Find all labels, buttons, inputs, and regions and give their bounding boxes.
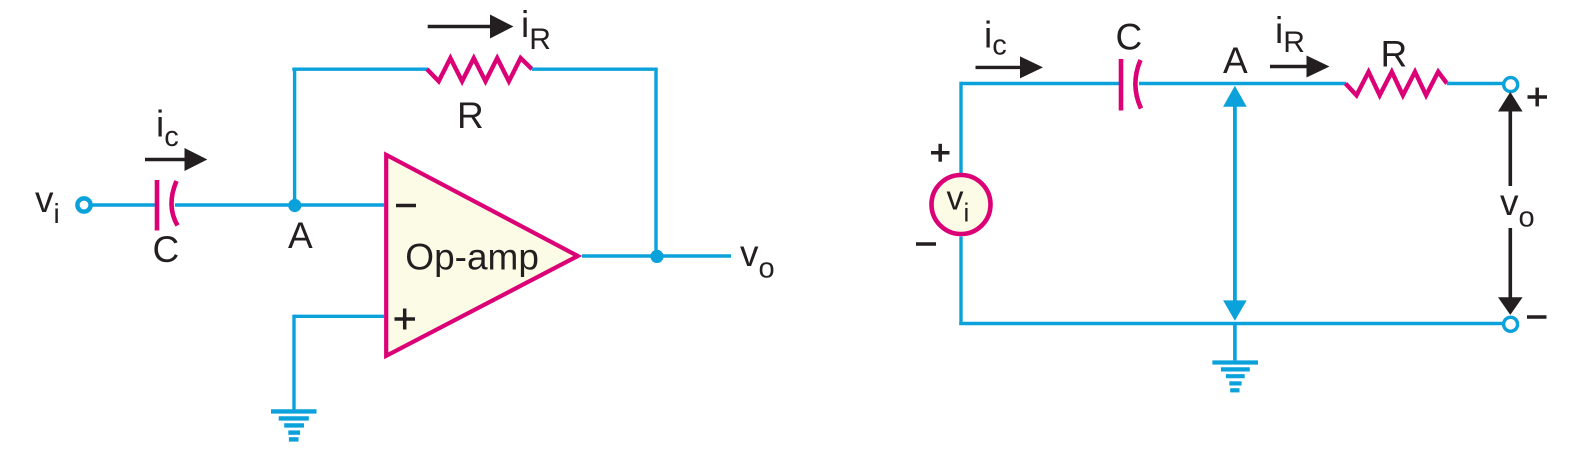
- wire: bottom: [959, 322, 1503, 325]
- source polarity plus: [931, 144, 950, 162]
- svg-text:ic: ic: [156, 104, 179, 154]
- wire: top feedback, left segment: [292, 67, 428, 70]
- svg-text:vo: vo: [1500, 182, 1535, 234]
- svg-text:R: R: [1381, 34, 1408, 75]
- input terminal (open circle): [77, 198, 90, 211]
- svg-text:Op-amp: Op-amp: [405, 237, 539, 278]
- capacitor C (right curved plate): [171, 181, 177, 226]
- wire: top, capacitor to resistor: [1139, 82, 1346, 85]
- wire: input terminal to capacitor: [92, 203, 155, 206]
- ground (right circuit): [1212, 363, 1258, 391]
- op-amp non-inverting input marker (plus): [395, 309, 416, 330]
- wire: feedback down to output node: [654, 69, 657, 256]
- capacitor C (left plate): [155, 180, 160, 231]
- resistor R (feedback zigzag): [427, 58, 532, 81]
- wire: left vertical below source: [959, 237, 962, 326]
- wire: capacitor to op-amp inverting input (through node A): [175, 203, 384, 206]
- current arrow i_c: [976, 56, 1044, 78]
- wire: resistor to output terminal: [1447, 82, 1503, 85]
- current arrow i_R: [428, 15, 514, 39]
- svg-text:R: R: [457, 95, 484, 136]
- current arrow i_R: [1270, 56, 1330, 78]
- op-amp inverting input marker (minus): [396, 204, 416, 208]
- svg-text:A: A: [1223, 40, 1248, 81]
- wire: top feedback, right segment: [532, 67, 658, 70]
- resistor R (zigzag): [1346, 72, 1448, 96]
- ground (left circuit): [271, 411, 317, 439]
- wire: top left segment (source to capacitor): [961, 82, 1122, 85]
- svg-text:iR: iR: [521, 4, 551, 56]
- svg-text:C: C: [1116, 17, 1143, 58]
- output polarity minus: [1527, 315, 1547, 319]
- capacitor C (right curved plate): [1135, 60, 1141, 109]
- svg-text:ic: ic: [984, 15, 1007, 62]
- label v_i (input voltage): [35, 179, 60, 229]
- node A (junction dot): [288, 199, 301, 212]
- wire: left vertical above source: [959, 82, 962, 174]
- source polarity minus: [916, 242, 936, 246]
- output polarity plus: [1528, 88, 1548, 107]
- voltage source v_i: [932, 175, 991, 234]
- svg-text:A: A: [288, 215, 313, 256]
- v_o measurement arrows: [1498, 92, 1523, 315]
- wire: node A up to feedback path: [293, 68, 296, 206]
- node A branch: double-arrow to ground: [1223, 86, 1247, 321]
- current arrow i_c: [145, 148, 207, 171]
- wire: ground stub below bottom wire: [1233, 324, 1237, 361]
- wire: non-inverting input horizontal: [294, 315, 384, 318]
- svg-text:iR: iR: [1275, 10, 1305, 59]
- wire: non-inverting input down to ground: [292, 315, 295, 411]
- op-amp U1 (triangle): [386, 155, 578, 356]
- svg-text:vo: vo: [740, 233, 775, 285]
- output node (junction dot): [650, 250, 663, 263]
- svg-text:vi: vi: [35, 179, 60, 229]
- output terminal bottom (open circle): [1504, 317, 1518, 331]
- svg-text:C: C: [153, 229, 180, 270]
- wire: op-amp output: [582, 254, 731, 257]
- output terminal top (open circle): [1504, 78, 1518, 92]
- capacitor C (left plate): [1119, 59, 1124, 111]
